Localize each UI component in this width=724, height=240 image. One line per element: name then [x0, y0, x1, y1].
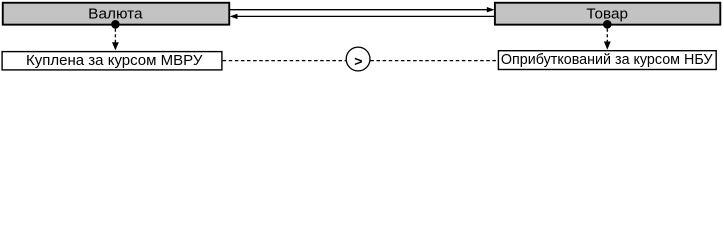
svg-text:>: > [354, 53, 362, 69]
svg-text:Куплена за курсом МВРУ: Куплена за курсом МВРУ [26, 52, 203, 69]
svg-text:Оприбуткований за курсом НБУ: Оприбуткований за курсом НБУ [501, 51, 713, 68]
